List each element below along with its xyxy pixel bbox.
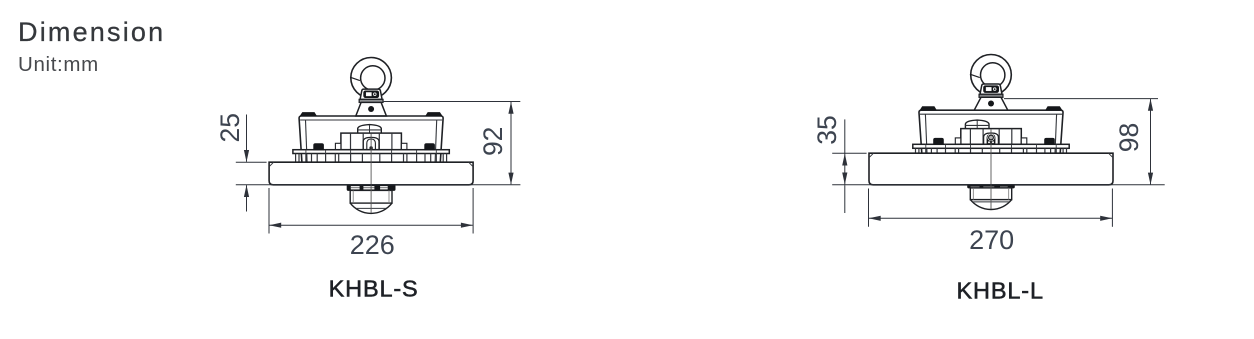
svg-text:KHBL-L: KHBL-L <box>957 277 1044 303</box>
svg-text:92: 92 <box>478 127 508 156</box>
svg-text:KHBL-S: KHBL-S <box>329 276 419 302</box>
svg-text:25: 25 <box>215 113 245 142</box>
svg-text:98: 98 <box>1114 123 1144 152</box>
svg-text:226: 226 <box>350 230 395 260</box>
svg-text:270: 270 <box>969 225 1014 255</box>
svg-text:35: 35 <box>812 115 842 144</box>
